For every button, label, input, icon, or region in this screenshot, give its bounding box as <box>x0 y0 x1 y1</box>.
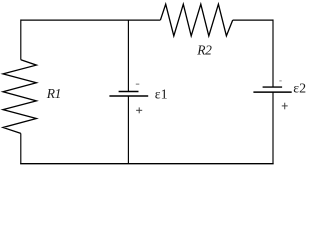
svg-text:ε1: ε1 <box>155 87 168 102</box>
battery E2: short (negative) plate <box>263 86 283 88</box>
battery E2: long (positive) plate <box>253 91 291 93</box>
resistor R1 <box>3 60 36 134</box>
wire: top-right horizontal segment <box>233 19 273 21</box>
battery E1: minus polarity mark <box>136 83 140 85</box>
battery E1: plus polarity mark <box>136 107 142 113</box>
wire: right vertical upper segment <box>272 19 274 87</box>
svg-text:ε2: ε2 <box>293 82 306 97</box>
wire: bottom horizontal segment <box>20 163 274 165</box>
svg-text:R2: R2 <box>196 43 212 58</box>
wire: middle branch upper segment <box>127 20 129 91</box>
battery E1: long (positive) plate <box>109 95 148 97</box>
wire: middle branch lower segment <box>127 96 129 164</box>
wire: right vertical lower segment <box>272 92 274 164</box>
battery E2: minus polarity mark <box>279 80 281 81</box>
battery E1: short (negative) plate <box>119 91 139 93</box>
resistor R2 <box>160 4 232 36</box>
svg-text:R1: R1 <box>46 86 61 101</box>
wire: top-left horizontal segment <box>21 19 161 21</box>
battery E2: plus polarity mark <box>282 103 288 110</box>
wire: left vertical lower segment <box>20 133 22 163</box>
wire: left vertical upper segment <box>20 19 22 59</box>
